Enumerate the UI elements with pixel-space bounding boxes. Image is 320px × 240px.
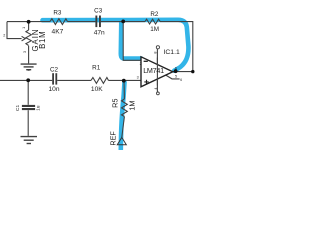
svg-text:C3: C3 (94, 8, 103, 15)
svg-text:1M: 1M (127, 101, 136, 111)
svg-text:6: 6 (180, 78, 182, 82)
svg-text:47n: 47n (94, 29, 105, 36)
svg-text:R2: R2 (150, 11, 159, 18)
svg-text:B1M: B1M (38, 31, 47, 49)
svg-text:1M: 1M (150, 26, 159, 33)
svg-text:4: 4 (154, 88, 158, 90)
svg-text:1: 1 (22, 27, 26, 29)
svg-text:10n: 10n (48, 86, 59, 93)
svg-text:C1: C1 (15, 105, 21, 111)
svg-text:2: 2 (3, 34, 5, 38)
svg-text:IC1.1: IC1.1 (164, 49, 180, 56)
svg-text:R1: R1 (92, 65, 101, 72)
svg-text:8: 8 (153, 52, 157, 54)
svg-text:C2: C2 (50, 66, 59, 73)
svg-text:R5: R5 (110, 98, 119, 107)
svg-text:2: 2 (140, 62, 142, 66)
svg-text:REF: REF (109, 131, 118, 146)
svg-text:4K7: 4K7 (52, 29, 64, 36)
svg-text:3: 3 (137, 76, 139, 80)
svg-text:1u: 1u (35, 105, 41, 111)
svg-text:3: 3 (23, 51, 27, 53)
svg-text:10K: 10K (91, 86, 103, 93)
svg-text:6: 6 (175, 67, 177, 71)
svg-text:R3: R3 (53, 10, 62, 17)
svg-text:LM741: LM741 (143, 66, 164, 75)
svg-text:5: 5 (175, 75, 177, 79)
